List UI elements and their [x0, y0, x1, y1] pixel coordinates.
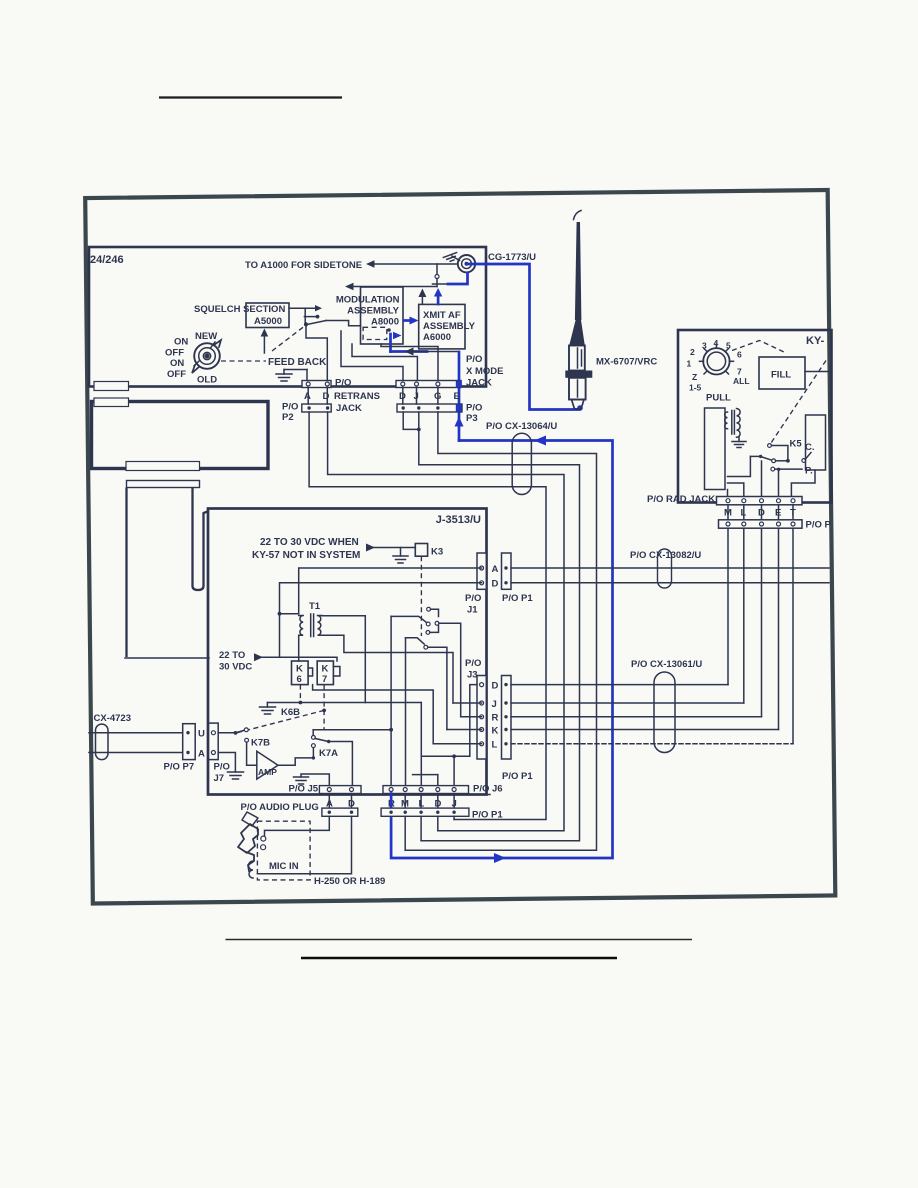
svg-text:MX-6707/VRC: MX-6707/VRC: [596, 357, 657, 368]
arrows into lines above XMIT: [421, 295, 423, 304]
row 756.3: [421, 755, 470, 757]
title underline top: [159, 96, 342, 98]
blue retrans loop wire: [391, 441, 612, 859]
ground at K3: [400, 548, 402, 557]
K6/K7 armature common: [313, 685, 434, 744]
relay K7: [317, 661, 333, 685]
svg-text:D: D: [492, 579, 499, 590]
svg-text:A6000: A6000: [423, 332, 451, 343]
KY transformer: [725, 409, 740, 438]
svg-text:2: 2: [690, 347, 695, 357]
svg-text:4: 4: [714, 338, 719, 348]
J6 jack bar: [383, 786, 469, 794]
svg-text:SQUELCH SECTION: SQUELCH SECTION: [194, 304, 285, 315]
svg-text:P/O J6: P/O J6: [473, 784, 503, 795]
K3 relay: [374, 547, 415, 549]
svg-text:30 VDC: 30 VDC: [219, 662, 252, 673]
svg-text:3: 3: [702, 341, 707, 351]
K5 contact set: [768, 444, 772, 448]
K5 wiring to rad jack: [728, 456, 751, 476]
relay K6: [292, 661, 309, 685]
svg-text:A8000: A8000: [371, 317, 399, 328]
svg-text:P/O CX-13082/U: P/O CX-13082/U: [630, 550, 701, 561]
P3 connector bar: [397, 404, 462, 412]
dashed line FILL area to K5: [770, 361, 826, 445]
staircase wire P2-D: [328, 412, 564, 831]
svg-text:K7B: K7B: [251, 738, 270, 749]
svg-text:OFF: OFF: [165, 348, 184, 359]
cable CX-13061 symbol: [654, 672, 675, 753]
svg-text:P/O P1: P/O P1: [502, 593, 533, 604]
H-250 handset dashed box: [257, 821, 310, 880]
svg-text:P/O AUDIO PLUG: P/O AUDIO PLUG: [241, 802, 319, 813]
svg-text:P/O P7: P/O P7: [164, 762, 195, 773]
hollow duct in KY-57: [705, 408, 726, 490]
J3-D hook wire: [470, 685, 477, 757]
svg-text:K: K: [492, 726, 499, 737]
svg-text:A5000: A5000: [254, 316, 282, 327]
svg-text:P/O CX-13064/U: P/O CX-13064/U: [486, 421, 557, 432]
svg-text:5: 5: [726, 341, 731, 351]
svg-text:D: D: [323, 391, 330, 402]
blue cable CG-1773 to antenna: [467, 264, 579, 410]
svg-text:JACK: JACK: [466, 378, 492, 389]
svg-text:P/O RAD JACK: P/O RAD JACK: [647, 494, 715, 505]
svg-text:P/O: P/O: [466, 354, 482, 365]
svg-text:J: J: [492, 699, 497, 710]
wire D row external: [511, 582, 829, 584]
svg-text:1-5: 1-5: [689, 383, 702, 393]
svg-text:7: 7: [737, 367, 742, 377]
svg-text:1: 1: [687, 359, 692, 369]
K3 actuator dashed: [420, 556, 422, 636]
bottom bus wires: [453, 816, 455, 819]
ground below feed back: [283, 370, 285, 375]
P7 plug bar: [183, 724, 196, 760]
svg-text:6: 6: [737, 350, 742, 360]
svg-text:J3: J3: [467, 670, 478, 681]
blue arrow A8000 to XMIT: [404, 319, 410, 322]
blue pin E X-mode: [456, 381, 462, 388]
contact set upper (K3): [427, 607, 431, 611]
svg-text:K: K: [322, 664, 329, 675]
svg-text:K7A: K7A: [319, 748, 338, 759]
svg-text:FEED BACK: FEED BACK: [268, 357, 327, 368]
staircase wire G: [405, 412, 596, 850]
J3 rows external to KY P1: [511, 684, 728, 686]
svg-text:22 TO 30 VDC WHEN: 22 TO 30 VDC WHEN: [260, 537, 359, 548]
svg-text:P/O CX-13061/U: P/O CX-13061/U: [631, 659, 702, 670]
K7 dashed actuator: [323, 685, 325, 729]
svg-text:P/O: P/O: [282, 402, 298, 413]
svg-text:TO A1000 FOR SIDETONE: TO A1000 FOR SIDETONE: [245, 260, 362, 271]
blue CX retrans path: X-mode E down: [458, 352, 461, 441]
stubs bars to P2/P3: [307, 388, 309, 405]
svg-text:E: E: [454, 391, 460, 402]
J6-D short riser: [437, 775, 439, 790]
J6-L riser: [420, 703, 422, 790]
CG-1773/U coax connector: [458, 255, 475, 272]
J7-A to ground: [218, 753, 235, 773]
dashed linkage K7 to K7B: [236, 710, 324, 733]
T1 secondary top wire: [322, 616, 365, 703]
svg-text:P/O: P/O: [214, 762, 230, 773]
svg-text:P/O: P/O: [465, 593, 481, 604]
retrans jack bar: [302, 381, 331, 388]
T1 secondary bottom wire: [322, 635, 453, 703]
K7B to AMP input: [247, 742, 257, 765]
keying dial: [703, 348, 729, 374]
svg-text:L: L: [492, 740, 498, 751]
svg-text:NEW: NEW: [195, 331, 217, 342]
svg-text:J1: J1: [467, 605, 478, 616]
caption underline 2: [301, 957, 617, 960]
svg-text:22 TO: 22 TO: [219, 650, 245, 661]
svg-text:P/O: P/O: [465, 658, 481, 669]
long verticals to J6 R and M: [390, 616, 392, 789]
dashed feedback line: [221, 360, 266, 362]
ground at CG connector: [443, 253, 458, 263]
svg-text:ON: ON: [170, 358, 184, 369]
stubs J5/J6 to plugs: [328, 794, 330, 809]
svg-text:K5: K5: [790, 439, 803, 450]
T1 primary bottom to K6: [298, 635, 300, 661]
svg-text:Z: Z: [692, 372, 697, 382]
hollow cable duct to J-3513: [127, 481, 200, 488]
svg-text:OLD: OLD: [197, 375, 217, 386]
svg-text:P/O J5: P/O J5: [289, 784, 319, 795]
svg-text:D: D: [492, 681, 499, 692]
svg-text:P3: P3: [466, 413, 478, 424]
audio plug wire A: [265, 816, 330, 837]
nested gamma wires above X-mode jack: [381, 344, 438, 381]
wire below XMIT to X MODE jack: [409, 351, 458, 353]
svg-text:ASSEMBLY: ASSEMBLY: [347, 306, 400, 317]
KY-57 box: [678, 330, 832, 503]
P1 drop wires: [727, 528, 729, 684]
dashed sub-block in A8000: [363, 327, 387, 339]
J7 jack bar: [209, 723, 219, 760]
lower-left equipment box: [92, 402, 269, 469]
XMIT AF assembly A6000 box: [419, 304, 465, 349]
K7 side tabs: [333, 667, 340, 677]
cable CX-13082 symbol: [658, 549, 672, 588]
svg-text:P2: P2: [282, 412, 294, 423]
squelch wire to retrans pin D: [306, 326, 327, 380]
AMP: [257, 751, 278, 779]
K7A switch: [312, 730, 314, 736]
J3 jack bar: [477, 676, 486, 760]
J5 jack bar: [319, 786, 361, 794]
staircase wire P2-A: [309, 412, 546, 820]
svg-text:A: A: [198, 749, 205, 760]
svg-text:OFF: OFF: [167, 369, 186, 380]
svg-text:24/246: 24/246: [90, 254, 124, 266]
audio plug wire D: [257, 816, 351, 873]
feedback arrow into A5000: [263, 334, 265, 353]
antenna MX-6707/VRC: [574, 211, 582, 220]
svg-text:XMIT AF: XMIT AF: [423, 310, 461, 321]
RAD JACK bar: [717, 497, 803, 505]
P1 audio plug bar: [381, 808, 469, 816]
P3 pin D jog wire: [403, 412, 419, 429]
K6B ground row: [267, 702, 421, 704]
svg-text:FILL: FILL: [771, 370, 791, 381]
wire into modulation assembly: [350, 286, 437, 288]
svg-text:U: U: [198, 729, 205, 740]
rotary switch OLD/NEW: [192, 340, 221, 373]
wires frame to P7: [89, 732, 183, 734]
svg-text:P/O: P/O: [466, 403, 482, 414]
svg-text:C.: C.: [805, 442, 815, 453]
svg-text:T1: T1: [309, 601, 321, 612]
J1 jack bar: [477, 553, 486, 589]
svg-text:ON: ON: [174, 337, 188, 348]
caption underline 1: [226, 939, 693, 941]
svg-text:A: A: [492, 564, 499, 575]
right duct in KY-57: [806, 415, 826, 470]
K7A contact feed row: [313, 729, 391, 731]
svg-text:7: 7: [322, 674, 327, 685]
blue feed in A8000: [389, 334, 392, 352]
P1 plug bar at J1: [502, 553, 512, 589]
J-3513/U box: [208, 509, 487, 795]
svg-text:J7: J7: [214, 773, 225, 784]
squelch switch arm: [307, 321, 326, 325]
pin drop from sidetone line: [436, 264, 438, 274]
J1-D wire: [280, 583, 482, 658]
cable notch on lower box bottom edge: [126, 462, 200, 471]
svg-text:K3: K3: [431, 547, 443, 558]
staircase wire D/J: [419, 412, 580, 841]
P1 plug bar at rad jack: [719, 520, 803, 528]
P1 plug bar at J3: [502, 676, 512, 760]
audio plug bar: [322, 808, 358, 816]
svg-text:RETRANS: RETRANS: [334, 391, 380, 402]
svg-text:R: R: [492, 713, 499, 724]
J1-A wire to T1: [299, 568, 482, 614]
modulation assembly A8000 box: [361, 287, 404, 344]
svg-text:CX-4723: CX-4723: [94, 713, 132, 724]
stubs rad jack to P1: [727, 505, 729, 520]
svg-text:KY-57 NOT IN SYSTEM: KY-57 NOT IN SYSTEM: [252, 550, 360, 561]
svg-text:K6B: K6B: [281, 707, 300, 718]
squelch section A5000 box: [246, 303, 289, 328]
ground at J5-A: [301, 774, 329, 786]
svg-text:JACK: JACK: [336, 403, 362, 414]
outer border frame: [85, 190, 835, 903]
svg-text:MODULATION: MODULATION: [336, 295, 400, 306]
AMP output to K7A: [278, 758, 313, 765]
contact set lower: [406, 638, 425, 644]
svg-text:AMP: AMP: [258, 767, 277, 777]
svg-text:ASSEMBLY: ASSEMBLY: [423, 321, 476, 332]
svg-text:KY-: KY-: [806, 335, 825, 347]
cable CX-13064 symbol: [512, 433, 531, 494]
svg-text:6: 6: [297, 674, 302, 685]
svg-text:P/O: P/O: [335, 378, 351, 389]
J-3513 bottom edge thick: [208, 794, 490, 796]
squelch contact wires: [289, 307, 317, 309]
svg-text:K: K: [296, 664, 303, 675]
audio plug connector silhouette: [238, 812, 258, 871]
K7A output to J5-D: [329, 742, 353, 786]
svg-text:P/O P1: P/O P1: [472, 810, 503, 821]
FILL box: [759, 357, 805, 389]
svg-text:CG-1773/U: CG-1773/U: [488, 252, 536, 263]
svg-text:J-3513/U: J-3513/U: [436, 514, 481, 526]
svg-text:P/O P: P/O P: [806, 520, 832, 531]
svg-text:P/O P1: P/O P1: [502, 771, 533, 782]
J3 rows internal: [453, 702, 482, 704]
svg-text:H-250 OR H-189: H-250 OR H-189: [314, 876, 385, 887]
K7B switch: [218, 732, 235, 734]
svg-text:ALL: ALL: [733, 376, 750, 386]
svg-text:MIC IN: MIC IN: [269, 861, 299, 872]
radio box 24/246: [89, 247, 486, 387]
cable notch on lower box top edge: [94, 398, 129, 407]
P2 connector bar: [302, 404, 331, 412]
K6 dashed actuator: [299, 685, 301, 701]
dial dashed linkage: [732, 341, 784, 353]
wire A row external: [511, 567, 829, 569]
svg-text:X MODE: X MODE: [466, 366, 503, 377]
cable notch on radio bottom edge: [94, 382, 129, 391]
sidetone wire: [371, 263, 458, 265]
svg-text:PULL: PULL: [706, 393, 731, 404]
